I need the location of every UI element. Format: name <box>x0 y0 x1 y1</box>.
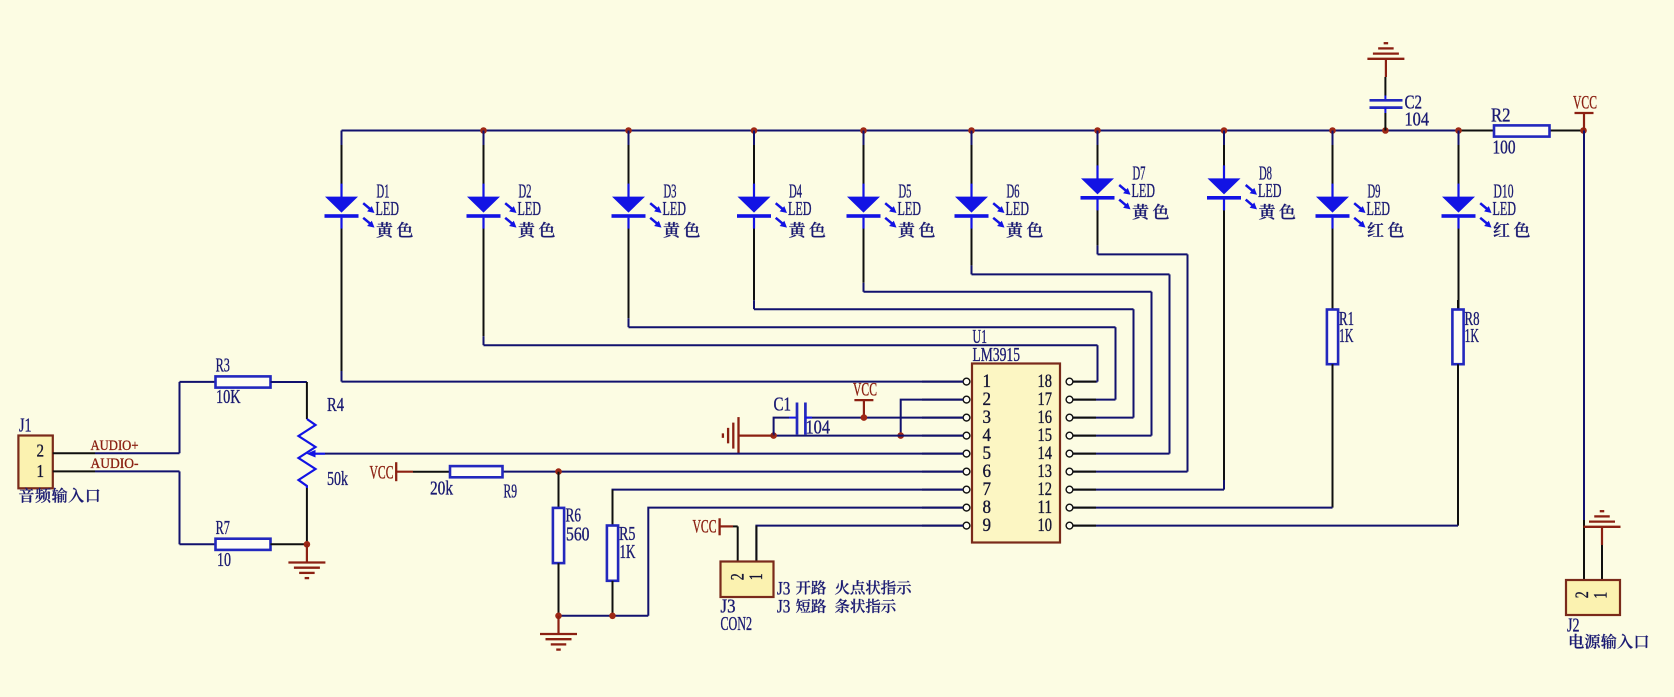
ground <box>288 544 325 578</box>
wire <box>1073 489 1224 491</box>
wire <box>1601 545 1603 580</box>
junction <box>555 468 562 475</box>
wire <box>1223 131 1225 490</box>
label 10K <box>216 387 241 408</box>
label U1 <box>973 327 988 348</box>
label 20k <box>430 478 453 499</box>
label D7 <box>1133 163 1146 184</box>
label D6 <box>1007 182 1020 203</box>
junction (C2) <box>1382 127 1389 134</box>
LED D9 <box>1316 184 1366 229</box>
svg-text:100: 100 <box>1493 138 1516 159</box>
resistor R5 <box>607 490 618 616</box>
svg-text:LM3915: LM3915 <box>973 345 1021 366</box>
label 黄色 <box>1133 204 1169 220</box>
label VCC <box>693 516 717 537</box>
svg-text:CON2: CON2 <box>721 614 753 635</box>
junction <box>625 127 632 134</box>
label VCC <box>1573 92 1597 113</box>
junction <box>860 127 867 134</box>
wire <box>53 452 180 454</box>
label R6 <box>566 506 582 527</box>
label CON2 <box>721 614 753 635</box>
wire <box>971 131 973 275</box>
svg-text:6: 6 <box>983 462 992 482</box>
label 黄色 <box>789 222 825 238</box>
svg-text:20k: 20k <box>430 478 453 499</box>
svg-text:LED: LED <box>1258 181 1282 202</box>
wire <box>1073 254 1188 471</box>
wire <box>325 453 963 455</box>
label LED <box>1493 199 1517 220</box>
resistor R7 <box>216 539 271 550</box>
wire <box>342 381 964 383</box>
label 红色 <box>1368 222 1404 237</box>
svg-text:7: 7 <box>983 480 992 500</box>
label D2 <box>519 182 532 203</box>
wire <box>1073 380 1458 526</box>
label 104 <box>1405 110 1430 131</box>
svg-text:16: 16 <box>1038 408 1053 428</box>
wire <box>179 382 181 453</box>
svg-text:5: 5 <box>983 444 992 464</box>
wire VCC bus (top) <box>342 129 1584 131</box>
label D9 <box>1368 182 1381 203</box>
wire <box>737 526 739 561</box>
label 50k <box>327 469 348 490</box>
capacitor C1 <box>774 403 812 436</box>
power VCC <box>720 518 738 535</box>
LED D6 <box>955 184 1005 229</box>
svg-text:LED: LED <box>518 199 542 220</box>
svg-text:18: 18 <box>1038 372 1053 392</box>
wire <box>1097 131 1099 255</box>
svg-text:R9: R9 <box>504 482 518 503</box>
ground <box>540 616 577 650</box>
LED D1 <box>325 184 375 229</box>
svg-text:J1: J1 <box>19 416 32 437</box>
resistor R3 <box>216 376 271 387</box>
svg-text:R3: R3 <box>216 356 230 377</box>
label LM3915 <box>973 345 1021 366</box>
label D8 <box>1259 163 1272 184</box>
label LED <box>1258 181 1282 202</box>
label 音频输入口 <box>19 488 99 503</box>
pin number 2 <box>1572 591 1593 598</box>
net label AUDIO+ <box>91 438 139 454</box>
svg-text:VCC: VCC <box>370 463 394 484</box>
junction <box>609 613 616 620</box>
svg-text:R7: R7 <box>216 518 230 539</box>
wire <box>972 273 1170 275</box>
svg-text:VCC: VCC <box>853 380 877 401</box>
label 1K <box>1339 326 1354 347</box>
wire <box>271 381 307 383</box>
svg-text:C1: C1 <box>774 395 792 416</box>
wire <box>648 508 963 616</box>
wire <box>864 291 1152 293</box>
label R3 <box>216 356 230 377</box>
junction <box>751 127 758 134</box>
wire <box>754 308 1134 310</box>
wire <box>1073 309 1134 417</box>
svg-text:LED: LED <box>1367 199 1391 220</box>
power VCC <box>396 462 450 481</box>
svg-text:104: 104 <box>1405 110 1430 131</box>
label D1 <box>377 182 390 203</box>
wire <box>1332 131 1334 310</box>
label 104 <box>806 418 831 439</box>
label 黄色 <box>519 222 555 238</box>
svg-text:4: 4 <box>983 426 992 446</box>
svg-text:LED: LED <box>1132 181 1156 202</box>
label 560 <box>566 525 590 546</box>
wire <box>1458 131 1460 310</box>
label 黄色 <box>664 222 700 238</box>
svg-text:104: 104 <box>806 418 831 439</box>
junction <box>1455 127 1462 134</box>
pin number 1 <box>37 461 45 481</box>
label 黄色 <box>1007 222 1043 238</box>
svg-text:LED: LED <box>376 199 400 220</box>
svg-text:AUDIO+: AUDIO+ <box>91 438 139 454</box>
pin number 1 <box>746 573 767 580</box>
label 红色 <box>1494 222 1530 237</box>
LED D4 <box>737 184 787 229</box>
label R5 <box>619 524 636 545</box>
label LED <box>898 199 922 220</box>
label J1 <box>19 416 32 437</box>
label VCC <box>853 380 877 401</box>
wire <box>559 615 649 617</box>
label C2 <box>1405 93 1423 114</box>
svg-text:2: 2 <box>37 440 45 460</box>
svg-text:11: 11 <box>1038 498 1053 518</box>
resistor R6 <box>553 472 564 616</box>
wire <box>805 417 963 419</box>
wire <box>1073 345 1098 381</box>
power VCC <box>854 400 873 418</box>
junction <box>304 541 311 548</box>
svg-text:10: 10 <box>1038 516 1053 536</box>
label LED <box>1006 199 1030 220</box>
wire <box>774 435 964 437</box>
pin number 1 <box>1591 592 1612 599</box>
svg-text:8: 8 <box>983 498 992 518</box>
label R4 <box>327 395 344 416</box>
ground <box>1584 511 1621 545</box>
label 100 <box>1493 138 1516 159</box>
label VCC <box>370 463 394 484</box>
label LED <box>518 199 542 220</box>
wire <box>1073 327 1116 399</box>
wire <box>180 543 216 545</box>
svg-text:1K: 1K <box>1339 326 1354 347</box>
resistor R2 <box>1494 125 1550 136</box>
wire <box>753 131 755 310</box>
label D5 <box>899 182 912 203</box>
wire <box>503 471 964 473</box>
wire <box>1098 253 1188 255</box>
label 1K <box>620 542 636 563</box>
junction <box>1094 127 1101 134</box>
svg-text:3: 3 <box>983 408 992 428</box>
svg-text:1K: 1K <box>620 542 636 563</box>
label D4 <box>789 182 802 203</box>
junction <box>555 613 562 620</box>
resistor R9 <box>450 466 503 477</box>
label R7 <box>216 518 230 539</box>
wire <box>483 131 485 346</box>
op-amp U1 LM3915 <box>972 364 1060 543</box>
label J3 <box>721 596 736 617</box>
pin number 2 <box>728 573 749 580</box>
wire <box>629 326 1116 328</box>
svg-text:1: 1 <box>1591 592 1612 599</box>
label LED <box>663 199 687 220</box>
junction <box>897 432 904 439</box>
label D10 <box>1494 182 1514 203</box>
label R8 <box>1465 309 1480 330</box>
connector J3 <box>721 562 774 598</box>
LED D2 <box>467 184 517 229</box>
net label AUDIO- <box>91 456 139 472</box>
label R2 <box>1491 105 1511 126</box>
label 10 <box>217 550 231 571</box>
junction (VCC/R2) <box>1580 127 1587 134</box>
label LED <box>1367 199 1391 220</box>
label LED <box>376 199 400 220</box>
svg-text:LED: LED <box>1493 199 1517 220</box>
svg-text:13: 13 <box>1038 462 1053 482</box>
wire <box>1583 131 1585 581</box>
wire <box>755 526 757 562</box>
svg-text:10: 10 <box>217 550 231 571</box>
pin number 2 <box>37 440 45 460</box>
svg-text:2: 2 <box>983 390 992 410</box>
resistor R1 <box>1327 300 1338 380</box>
label 1K <box>1465 326 1480 347</box>
label D3 <box>664 182 677 203</box>
label J3 开路 火点状指示 <box>777 578 911 599</box>
svg-text:12: 12 <box>1038 480 1053 500</box>
svg-text:J2: J2 <box>1567 615 1580 636</box>
svg-text:R2: R2 <box>1491 105 1511 126</box>
svg-text:1K: 1K <box>1465 326 1480 347</box>
capacitor C2 <box>1370 77 1403 131</box>
svg-text:15: 15 <box>1038 426 1053 446</box>
wire <box>179 471 181 544</box>
ground <box>723 417 774 454</box>
svg-text:J3: J3 <box>777 596 791 617</box>
wire <box>180 381 216 383</box>
svg-text:LED: LED <box>663 199 687 220</box>
U1 left pins <box>922 378 970 529</box>
svg-text:560: 560 <box>566 525 590 546</box>
label R1 <box>1339 309 1354 330</box>
U1 right pins <box>1066 378 1096 529</box>
wire <box>901 400 963 436</box>
label J2 <box>1567 615 1580 636</box>
svg-text:1: 1 <box>37 461 45 481</box>
svg-text:R4: R4 <box>327 395 344 416</box>
wire <box>863 131 865 292</box>
svg-text:R6: R6 <box>566 506 582 527</box>
svg-text:LED: LED <box>1006 199 1030 220</box>
junction <box>770 432 777 439</box>
svg-text:1: 1 <box>746 573 767 580</box>
wire <box>1073 274 1170 453</box>
junction <box>1329 127 1336 134</box>
label C1 <box>774 395 792 416</box>
junction <box>968 127 975 134</box>
U1 left pin numbers <box>983 372 992 536</box>
wire <box>271 543 307 545</box>
LED D8 <box>1207 165 1257 210</box>
junction <box>861 414 868 421</box>
svg-text:10K: 10K <box>216 387 241 408</box>
U1 right pin numbers <box>1038 372 1053 536</box>
wire <box>628 131 630 328</box>
svg-text:50k: 50k <box>327 469 348 490</box>
svg-text:1: 1 <box>983 372 992 392</box>
wire <box>53 470 180 472</box>
LED D3 <box>612 184 662 229</box>
wire <box>1073 292 1152 436</box>
svg-text:VCC: VCC <box>1573 92 1597 113</box>
label 黄色 <box>1259 204 1295 220</box>
LED D7 <box>1081 165 1131 210</box>
label R9 <box>504 482 518 503</box>
label J3 短路 条状指示 <box>777 596 896 617</box>
resistor R8 <box>1452 300 1463 380</box>
svg-text:AUDIO-: AUDIO- <box>91 456 139 472</box>
svg-text:14: 14 <box>1038 444 1053 464</box>
label 黄色 <box>899 222 935 238</box>
wire <box>484 344 1098 346</box>
LED D10 <box>1442 184 1492 229</box>
junction <box>1221 127 1228 134</box>
svg-text:VCC: VCC <box>693 516 717 537</box>
label LED <box>1132 181 1156 202</box>
label 电源输入口 <box>1570 634 1648 649</box>
label 黄色 <box>377 222 413 238</box>
svg-text:17: 17 <box>1038 390 1053 410</box>
wire <box>1073 380 1333 508</box>
resistor R4 <box>299 382 326 544</box>
junction <box>480 127 487 134</box>
label LED <box>788 199 812 220</box>
wire <box>341 131 343 382</box>
LED D5 <box>847 184 897 229</box>
wire <box>613 490 964 526</box>
svg-text:9: 9 <box>983 516 992 536</box>
svg-text:LED: LED <box>788 199 812 220</box>
power VCC <box>1575 113 1594 131</box>
connector J2 <box>1566 580 1620 615</box>
ground <box>1367 43 1404 77</box>
svg-text:LED: LED <box>898 199 922 220</box>
connector J1 <box>18 436 52 489</box>
wire <box>756 526 963 562</box>
